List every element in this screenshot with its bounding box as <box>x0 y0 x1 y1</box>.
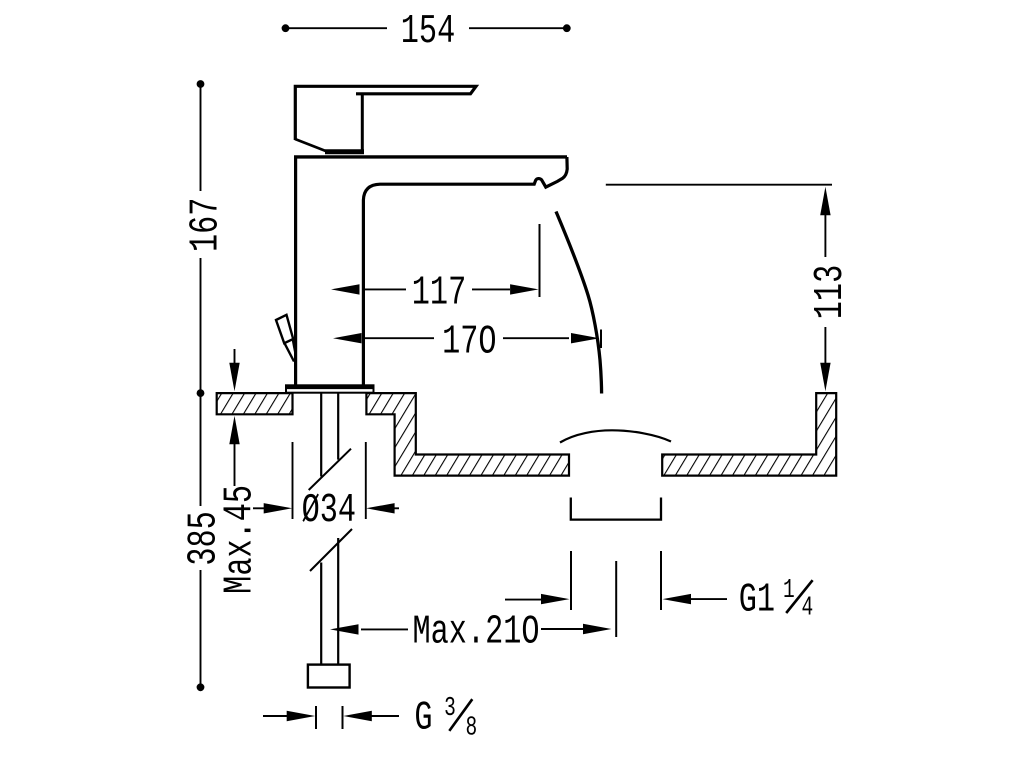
svg-text:8: 8 <box>465 714 477 744</box>
dimension 113 <box>606 185 854 392</box>
svg-text:G: G <box>414 694 432 741</box>
svg-text:154: 154 <box>401 8 455 55</box>
dimension 117 <box>331 224 540 316</box>
pop-up drain rod <box>276 315 295 362</box>
pipe break slashes <box>309 449 351 490</box>
countertop left slab <box>217 393 293 414</box>
svg-text:G1: G1 <box>739 576 775 623</box>
G3/8 connector box <box>308 665 350 688</box>
supply pipes <box>321 393 338 665</box>
svg-text:3: 3 <box>444 694 456 724</box>
faucet lever handle <box>295 86 476 152</box>
dimension 385 <box>180 393 227 691</box>
dimension diameter 34 <box>253 442 399 534</box>
dimension Max.45 <box>216 349 263 594</box>
dimension 170 <box>333 318 601 365</box>
dimension 154 <box>282 8 571 55</box>
water stream <box>556 212 602 394</box>
svg-text:Max.45: Max.45 <box>216 485 263 594</box>
countertop step piece <box>366 393 569 476</box>
faucet body and spout <box>294 157 567 386</box>
svg-text:1: 1 <box>783 577 795 607</box>
svg-text:117: 117 <box>412 269 466 316</box>
countertop right L piece <box>662 393 836 476</box>
svg-text:Max.21O: Max.21O <box>413 608 540 655</box>
svg-text:4: 4 <box>802 594 814 624</box>
dimension G 3/8 <box>263 694 477 743</box>
svg-text:167: 167 <box>182 198 229 252</box>
svg-text:113: 113 <box>807 265 854 319</box>
dimension Max.210 <box>330 561 616 655</box>
svg-text:Ø34: Ø34 <box>302 487 356 534</box>
svg-text:17O: 17O <box>442 318 496 365</box>
dimension 167 <box>182 80 229 397</box>
faucet base plate <box>286 385 374 392</box>
drain flange <box>571 498 661 520</box>
basin bottom arc <box>560 430 671 442</box>
dimension G 1 1/4 <box>505 551 813 624</box>
